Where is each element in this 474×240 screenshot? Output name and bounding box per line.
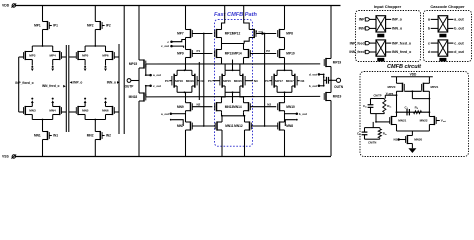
svg-text:P3: P3 [208,79,212,83]
svg-text:c_out: c_out [161,44,169,48]
svg-text:a_out: a_out [153,73,161,77]
svg-text:P2: P2 [266,49,270,53]
svg-text:INP_feed_o: INP_feed_o [392,41,411,45]
svg-text:b_out: b_out [454,27,464,31]
svg-text:MN10: MN10 [286,105,295,109]
svg-text:VDD: VDD [410,72,417,76]
svg-text:MN13: MN13 [225,105,234,109]
svg-text:c_out: c_out [153,84,161,88]
svg-text:IP2: IP2 [106,24,111,28]
svg-text:IN2: IN2 [106,134,111,138]
svg-text:INP_fixed_o: INP_fixed_o [15,81,33,85]
svg-text:MN17: MN17 [286,79,294,83]
svg-text:MN16: MN16 [186,79,194,83]
svg-text:N1: N1 [393,138,397,142]
svg-text:IP1: IP1 [53,24,58,28]
svg-text:N3: N3 [301,79,305,83]
svg-text:MN14: MN14 [233,105,242,109]
svg-text:c: c [428,41,430,45]
svg-text:C: C [323,75,325,79]
svg-text:d: d [428,50,430,54]
svg-text:MP2: MP2 [87,24,94,28]
svg-text:a_out: a_out [454,18,464,22]
svg-text:N3: N3 [201,79,205,83]
svg-text:MN5: MN5 [82,109,89,113]
svg-text:MP5: MP5 [82,54,89,58]
svg-text:MN15: MN15 [234,79,242,83]
svg-text:INN_feed_o: INN_feed_o [42,84,60,88]
svg-text:MP1: MP1 [34,24,41,28]
svg-text:INN_feed_o: INN_feed_o [392,50,411,54]
svg-text:Cascode Chopper: Cascode Chopper [430,4,465,9]
svg-text:INN: INN [359,27,366,31]
svg-text:d_out: d_out [454,50,464,54]
svg-text:INP: INP [359,18,366,22]
svg-text:VSS: VSS [2,154,10,158]
svg-text:INN_feed: INN_feed [349,50,364,54]
svg-text:Fast CMFB Path: Fast CMFB Path [214,12,257,18]
svg-text:IN1: IN1 [53,134,58,138]
svg-text:N2: N2 [197,102,201,106]
svg-text:CN/TN: CN/TN [368,140,376,144]
svg-text:b_out: b_out [299,112,307,116]
svg-text:MN6: MN6 [102,109,109,113]
svg-text:MN20: MN20 [414,138,422,142]
svg-text:MP16: MP16 [175,79,183,83]
svg-text:MP4: MP4 [50,54,57,58]
svg-text:MN3: MN3 [29,109,36,113]
svg-text:MP14: MP14 [233,52,242,56]
svg-text:MP13: MP13 [225,52,234,56]
svg-text:INP_o: INP_o [73,80,82,84]
svg-text:b_out: b_out [309,84,317,88]
svg-text:MN19: MN19 [333,95,342,99]
svg-text:MN12: MN12 [234,124,243,128]
svg-text:d_out: d_out [309,73,317,77]
svg-text:MN8: MN8 [286,124,293,128]
svg-text:INP_feed: INP_feed [350,41,365,45]
svg-text:INN_o: INN_o [392,27,402,31]
svg-text:P3: P3 [165,79,169,83]
svg-text:MN9: MN9 [177,105,184,109]
svg-text:OUTP: OUTP [125,84,135,88]
svg-text:INP_o: INP_o [392,18,402,22]
svg-text:MN18: MN18 [129,95,138,99]
svg-text:OUTN: OUTN [334,85,344,89]
svg-text:MP21: MP21 [431,85,439,89]
svg-text:MP9: MP9 [177,52,184,56]
svg-text:MP20: MP20 [388,85,396,89]
svg-text:VDD: VDD [2,4,10,8]
svg-text:MN11: MN11 [225,124,234,128]
svg-text:CMFB circuit: CMFB circuit [387,64,422,70]
svg-text:MP12: MP12 [232,32,241,36]
svg-text:P3: P3 [265,79,269,83]
svg-text:MP6: MP6 [102,54,109,58]
svg-text:Input Chopper: Input Chopper [374,4,402,9]
svg-text:CN/TP: CN/TP [373,94,381,98]
svg-text:MP10: MP10 [286,52,295,56]
svg-text:MN1: MN1 [34,134,41,138]
svg-text:a: a [428,18,430,22]
svg-text:c_out: c_out [454,41,464,45]
svg-text:INN_o: INN_o [107,80,116,84]
svg-text:MP15: MP15 [223,79,231,83]
svg-text:MP17: MP17 [275,79,283,83]
svg-text:MN22: MN22 [420,119,428,123]
svg-text:MN2: MN2 [87,134,94,138]
svg-text:MN4: MN4 [49,109,56,113]
svg-text:MP15: MP15 [129,62,138,66]
svg-text:b: b [428,27,430,31]
svg-text:VCMFB: VCMFB [386,92,394,95]
svg-text:MN21: MN21 [398,119,406,123]
svg-text:P1: P1 [197,49,201,53]
svg-text:MP7: MP7 [177,32,184,36]
svg-text:MP8: MP8 [286,32,293,36]
svg-text:N3: N3 [254,79,258,83]
svg-text:MP19: MP19 [333,61,342,65]
svg-text:MP3: MP3 [29,54,36,58]
svg-text:a_out: a_out [161,112,169,116]
svg-text:N2: N2 [267,102,271,106]
